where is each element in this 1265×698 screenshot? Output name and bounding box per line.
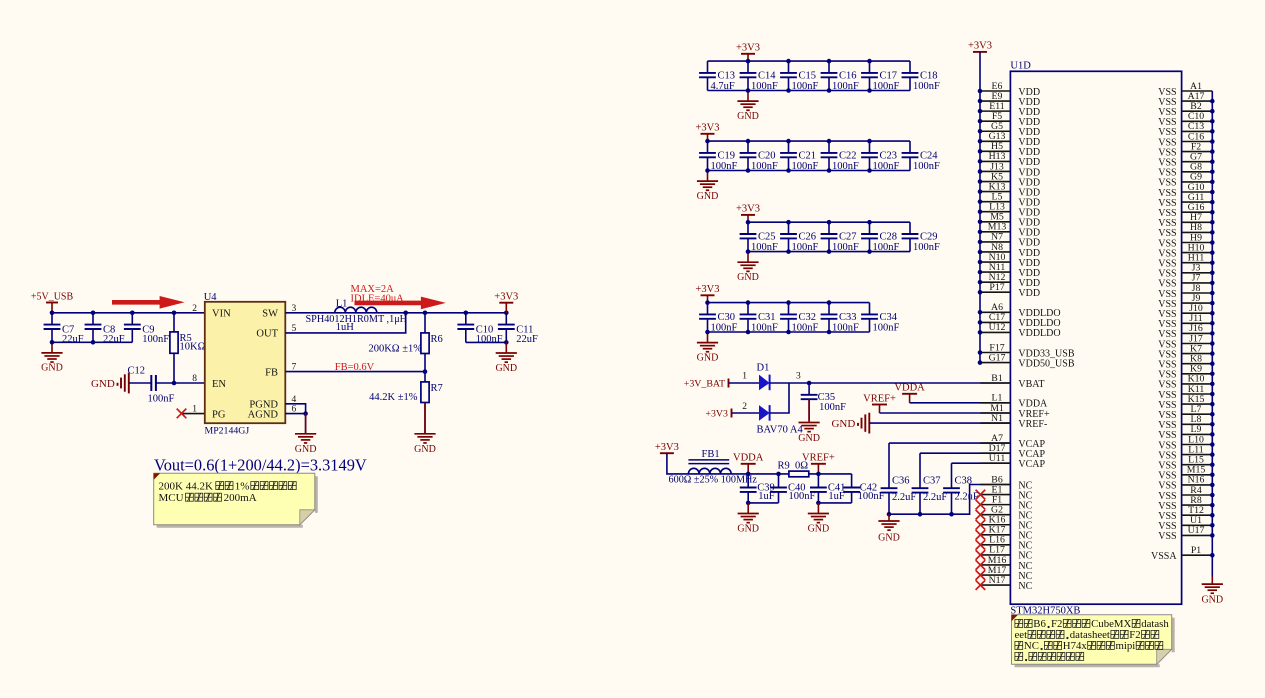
svg-text:Vout=0.6(1+200/44.2)=3.3149V: Vout=0.6(1+200/44.2)=3.3149V: [154, 455, 367, 474]
svg-text:VDDLDO: VDDLDO: [1018, 328, 1060, 339]
pin NC (K17): [980, 525, 1032, 542]
wire ground rail for C25-C29: [748, 251, 910, 253]
svg-text:SPH4012H1R0MT ,1μH: SPH4012H1R0MT ,1μH: [306, 314, 408, 325]
junction VDD bus N12: [978, 280, 983, 285]
junction VDD bus N11: [978, 270, 983, 275]
capacitor C13: [699, 61, 735, 92]
pin VDD (H5): [980, 141, 1040, 158]
pin VSS (L15): [1158, 455, 1212, 472]
junction: [807, 381, 812, 386]
junction VDDLDO bus A6: [978, 310, 983, 315]
junction VDD bus P17: [978, 290, 983, 295]
junction VDDLDO bus U12: [978, 330, 983, 335]
wire R6 top lead: [424, 313, 426, 333]
pin VCAP (A7): [980, 433, 1045, 450]
junction VSS bus B2: [1210, 109, 1215, 114]
svg-text:D1: D1: [757, 363, 770, 374]
pin VDD (G5): [980, 121, 1040, 138]
pin VSS (C13): [1158, 121, 1212, 138]
junction: [746, 220, 751, 225]
svg-text:1%: 1%: [235, 481, 250, 493]
junction VSS bus J9: [1210, 301, 1215, 306]
junction: [867, 88, 872, 93]
pin NC (L16): [980, 535, 1032, 552]
junction VSS bus J7: [1210, 281, 1215, 286]
svg-text:GND: GND: [737, 272, 759, 283]
junction: [786, 168, 791, 173]
wire D1 cathode join: [770, 383, 789, 413]
svg-text:C25: C25: [758, 232, 776, 243]
svg-text:600Ω ±25% 100MHz: 600Ω ±25% 100MHz: [669, 474, 758, 485]
svg-text:C22: C22: [839, 150, 857, 161]
svg-text:C18: C18: [920, 70, 938, 81]
capacitor C20: [740, 141, 778, 172]
svg-text:VBAT: VBAT: [1018, 379, 1044, 390]
U4 pin number 6: [292, 405, 297, 415]
junction: [918, 512, 923, 517]
junction VSS bus L8: [1210, 422, 1215, 427]
power port +3V3: [736, 43, 760, 62]
junction: [827, 249, 832, 254]
junction VSS bus K11: [1210, 392, 1215, 397]
capacitor C14: [740, 61, 778, 92]
ground (bar style): [91, 373, 129, 394]
svg-text:L1: L1: [336, 298, 348, 309]
svg-text:AGND: AGND: [248, 409, 279, 420]
capacitor C22: [821, 141, 859, 172]
power port +3V3: [695, 284, 719, 303]
pin VSS (U17): [1158, 525, 1212, 542]
power port +3V3: [736, 204, 760, 223]
diode D1 (BAV70 dual): [757, 363, 804, 436]
svg-text:MP2144GJ: MP2144GJ: [205, 426, 250, 437]
junction VDDLDO bus C17: [978, 320, 983, 325]
junction VDD bus F5: [978, 119, 983, 124]
no-connect X at pin N17: [976, 580, 986, 590]
label IDLE=40uA: [351, 293, 405, 304]
U4 pin number 8: [192, 374, 197, 384]
junction: [827, 300, 832, 305]
wire R6-R7 FB node: [424, 354, 426, 382]
junction: [705, 330, 710, 335]
capacitor C38: [943, 463, 979, 514]
junction VSS bus H8: [1210, 230, 1215, 235]
ground: [737, 252, 759, 283]
svg-text:100nF: 100nF: [751, 242, 778, 253]
pin VDD (F5): [980, 111, 1040, 128]
pin VDD (M5): [980, 212, 1040, 229]
note2 text line3: [1015, 640, 1163, 652]
pin VSS (J16): [1158, 323, 1212, 340]
junction: [504, 311, 509, 316]
pin VSS (H10): [1158, 242, 1212, 259]
pin VDD (J13): [980, 161, 1040, 178]
svg-text:VDD: VDD: [1018, 288, 1040, 299]
capacitor C37: [912, 453, 948, 514]
capacitor C35: [801, 383, 846, 421]
svg-text:GND: GND: [414, 444, 436, 455]
note box (pin B6/F2 remark): [1012, 615, 1175, 668]
junction: [303, 411, 308, 416]
resistor R5: [170, 332, 192, 353]
pin VDD (N7): [980, 232, 1040, 249]
pin VSS (G16): [1158, 202, 1212, 219]
pin VSS (L11): [1158, 444, 1212, 461]
junction: [827, 220, 832, 225]
svg-text:U4: U4: [204, 292, 218, 303]
pin VSS (M15): [1158, 465, 1212, 482]
svg-text:GND: GND: [878, 533, 900, 544]
U4 pin number 2: [192, 304, 197, 314]
svg-text:H74x: H74x: [1063, 640, 1088, 652]
junction: [464, 311, 469, 316]
svg-text:100nF: 100nF: [858, 491, 885, 502]
junction: [827, 139, 832, 144]
wire +3V3 rail for C19-C24: [708, 140, 911, 142]
svg-text:100nF: 100nF: [832, 161, 859, 172]
svg-text:C28: C28: [880, 232, 898, 243]
junction VDD bus E9: [978, 99, 983, 104]
svg-text:+3V_BAT: +3V_BAT: [684, 378, 725, 389]
pin VSS (R4): [1158, 485, 1212, 502]
svg-text:VREF-: VREF-: [1018, 419, 1047, 430]
pin VSS (J9): [1158, 293, 1212, 310]
capacitor C36: [881, 443, 917, 514]
svg-text:100nF: 100nF: [819, 402, 846, 413]
no-connect X at pin F1: [976, 500, 986, 510]
junction VSS bus J8: [1210, 291, 1215, 296]
svg-text:44.2K ±1%: 44.2K ±1%: [369, 392, 418, 403]
svg-text:C14: C14: [758, 70, 776, 81]
svg-text:GND: GND: [41, 363, 63, 374]
svg-text:22uF: 22uF: [516, 334, 538, 345]
U4 pin number 7: [292, 363, 297, 373]
junction: [867, 249, 872, 254]
pin VSS (J7): [1158, 273, 1212, 290]
pin NC (M17): [980, 565, 1032, 582]
pin VSS (A1): [1158, 81, 1212, 98]
wire VCAP caps to B6: [889, 485, 1010, 515]
svg-text:B6: B6: [1033, 618, 1046, 630]
svg-text:C13: C13: [718, 70, 736, 81]
svg-text:100nF: 100nF: [792, 242, 819, 253]
svg-text:GND: GND: [697, 191, 719, 202]
resistor R9: [778, 460, 809, 477]
ground: [1201, 577, 1223, 606]
wire +3V3 rail for C13-C18: [708, 60, 911, 62]
pin VDD (H13): [980, 151, 1040, 168]
svg-text:100nF: 100nF: [873, 161, 900, 172]
pin VDD (N8): [980, 242, 1040, 259]
junction: [776, 472, 781, 477]
svg-text:100nF: 100nF: [913, 81, 940, 92]
svg-text:GND: GND: [1201, 594, 1223, 605]
svg-text:C34: C34: [880, 312, 898, 323]
power port VDDA: [894, 383, 925, 403]
junction VDD bus M5: [978, 219, 983, 224]
junction VDD bus G13: [978, 139, 983, 144]
svg-text:NC: NC: [1024, 640, 1039, 652]
junction: [746, 88, 751, 93]
note text line2: [159, 492, 257, 504]
wire VREF+ to pin M1: [880, 412, 1011, 414]
svg-text:C20: C20: [758, 150, 776, 161]
svg-text:P17: P17: [989, 282, 1004, 293]
svg-text:100nF: 100nF: [832, 242, 859, 253]
pin VSS (J3): [1158, 263, 1212, 280]
pin VCAP (U11): [980, 453, 1045, 470]
svg-text:C19: C19: [718, 150, 736, 161]
D1 pin number 2: [742, 402, 747, 412]
junction VSS bus L9: [1210, 432, 1215, 437]
junction: [867, 220, 872, 225]
junction VDD bus N8: [978, 250, 983, 255]
ground: [737, 503, 759, 534]
power port +3V3: [695, 123, 719, 142]
junction VDD bus G5: [978, 129, 983, 134]
pin VSS (K8): [1158, 354, 1212, 371]
svg-text:200mA: 200mA: [224, 492, 257, 504]
pin VSS (J17): [1158, 333, 1212, 350]
no-connect X at pin K16: [976, 520, 986, 530]
svg-text:C24: C24: [920, 150, 938, 161]
wire VSS bus: [1211, 91, 1213, 577]
svg-text:C15: C15: [799, 70, 817, 81]
svg-text:C33: C33: [839, 312, 857, 323]
wire FB to divider: [285, 371, 425, 373]
svg-text:1uF: 1uF: [828, 491, 845, 502]
svg-text:VSSA: VSSA: [1151, 551, 1177, 562]
svg-text:EN: EN: [212, 379, 226, 390]
pin VDD (N12): [980, 272, 1040, 289]
svg-text:100nF: 100nF: [832, 81, 859, 92]
junction VSS bus K9: [1210, 372, 1215, 377]
note2 text line4: [1015, 652, 1084, 661]
svg-text:200K 44.2K: 200K 44.2K: [159, 481, 213, 493]
pin VREF- (N1): [980, 413, 1047, 430]
svg-text:VREF+: VREF+: [802, 453, 835, 464]
junction VSS bus H7: [1210, 220, 1215, 225]
svg-text:VCAP: VCAP: [1018, 459, 1045, 470]
junction VSS bus M15: [1210, 473, 1215, 478]
pin VSS (L8): [1158, 414, 1212, 431]
svg-text:MCU: MCU: [159, 492, 184, 504]
svg-text:VREF+: VREF+: [863, 393, 896, 404]
wire R5 bottom lead: [173, 353, 175, 383]
junction VSS bus G16: [1210, 210, 1215, 215]
svg-text:4.7uF: 4.7uF: [711, 81, 735, 92]
wire +3V_BAT to D1 pin1: [729, 382, 760, 384]
ground: [697, 171, 719, 202]
pin VDDA (L1): [980, 393, 1048, 410]
junction VDD bus H13: [978, 159, 983, 164]
note box (resistor tolerance): [154, 473, 318, 528]
power port +3V3: [705, 408, 731, 419]
junction: [867, 59, 872, 64]
resistor R6: [421, 333, 443, 354]
D1 pin number 3: [796, 371, 801, 381]
svg-text:C16: C16: [839, 70, 857, 81]
pin VDD50_USB (G17): [980, 352, 1075, 369]
svg-text:100nF: 100nF: [913, 242, 940, 253]
svg-text:100nF: 100nF: [711, 161, 738, 172]
label MAX=2A: [351, 284, 395, 295]
svg-text:N17: N17: [989, 575, 1006, 586]
pin VDD (N10): [980, 252, 1040, 269]
capacitor C29: [902, 222, 940, 253]
wire PGND to AGND: [285, 404, 305, 414]
pin VSS (J8): [1158, 283, 1212, 300]
no-connect X at pin L17: [976, 550, 986, 560]
junction VDD33_USB bus: [978, 350, 983, 355]
svg-text:+5V_USB: +5V_USB: [31, 291, 74, 302]
capacitor C39: [740, 474, 775, 503]
U4 pin number 3: [292, 304, 297, 314]
junction: [786, 220, 791, 225]
junction: [827, 88, 832, 93]
svg-text:2: 2: [192, 304, 197, 314]
svg-text:3: 3: [796, 371, 801, 381]
wire R9 to C42: [809, 473, 852, 475]
wire PG pin stub: [183, 413, 205, 415]
svg-text:+3V3: +3V3: [695, 123, 719, 134]
svg-text:100nF: 100nF: [711, 323, 738, 334]
junction VDD bus J13: [978, 169, 983, 174]
svg-text:C29: C29: [920, 232, 938, 243]
wire +3V3 to D1 pin2: [732, 412, 760, 414]
junction: [827, 168, 832, 173]
svg-text:C27: C27: [839, 232, 857, 243]
junction VSS bus C13: [1210, 129, 1215, 134]
svg-text:OUT: OUT: [256, 329, 278, 340]
power port +3V3: [968, 41, 992, 52]
junction VSS bus K8: [1210, 361, 1215, 366]
svg-text:200KΩ ±1%: 200KΩ ±1%: [368, 343, 422, 354]
svg-text:GND: GND: [737, 523, 759, 534]
junction VSS bus P1: [1210, 553, 1215, 558]
svg-text:VDDA: VDDA: [733, 453, 764, 464]
svg-text:R6: R6: [431, 334, 443, 345]
pin NC (G2): [980, 504, 1032, 521]
capacitor C21: [780, 141, 818, 172]
pin VREF+ (M1): [980, 403, 1050, 420]
junction: [867, 168, 872, 173]
junction VSS bus H9: [1210, 240, 1215, 245]
junction: [50, 311, 55, 316]
pin VDD (N11): [980, 262, 1040, 279]
junction: [746, 330, 751, 335]
svg-text:BAV70 A4: BAV70 A4: [757, 425, 804, 436]
svg-text:C37: C37: [923, 475, 941, 486]
junction: [949, 512, 954, 517]
svg-text:B1: B1: [991, 373, 1003, 384]
svg-text:GND: GND: [495, 363, 517, 374]
capacitor C10: [457, 313, 502, 345]
junction: [172, 311, 177, 316]
junction VSS bus K7: [1210, 351, 1215, 356]
pin VSS (L9): [1158, 424, 1212, 441]
capacitor C24: [902, 141, 940, 172]
pin VSS (T12): [1158, 505, 1212, 522]
svg-text:+3V3: +3V3: [494, 292, 518, 303]
svg-text:SW: SW: [262, 309, 278, 320]
wire OUT to SW node: [285, 313, 405, 333]
no-connect X at pin K17: [976, 530, 986, 540]
junction VDD bus L13: [978, 209, 983, 214]
pin VDDLDO (U12): [980, 322, 1061, 339]
value 44.2K ±1% of R7: [369, 392, 418, 403]
ground: [798, 399, 820, 444]
junction VDD bus N7: [978, 240, 983, 245]
junction VDD bus N10: [978, 260, 983, 265]
junction: [746, 249, 751, 254]
svg-text:+3V3: +3V3: [736, 204, 760, 215]
wire ground rail for C30-C34: [708, 331, 870, 333]
wire +3V3 rail for C25-C29: [748, 221, 910, 223]
junction: [816, 501, 821, 506]
junction: [746, 300, 751, 305]
U4 pin number 1: [192, 405, 197, 415]
pin VCAP (D17): [980, 443, 1045, 460]
svg-text:mipi: mipi: [1115, 640, 1135, 652]
junction VSS bus K15: [1210, 402, 1215, 407]
pin VSS (N16): [1158, 475, 1212, 492]
pin VSS (B2): [1158, 101, 1212, 118]
svg-text:P1: P1: [1191, 545, 1201, 556]
svg-text:100nF: 100nF: [792, 161, 819, 172]
D1 pin number 1: [742, 371, 747, 381]
svg-text:22uF: 22uF: [103, 334, 125, 345]
power port +5V_USB: [31, 291, 74, 313]
pin VDD (L13): [980, 202, 1040, 219]
svg-text:+3V3: +3V3: [736, 43, 760, 54]
junction VSS bus U17: [1210, 533, 1215, 538]
junction: [423, 311, 428, 316]
svg-text:C21: C21: [799, 150, 817, 161]
svg-text:100nF: 100nF: [148, 394, 175, 405]
pin VDD (G13): [980, 131, 1040, 148]
junction VSS bus J16: [1210, 331, 1215, 336]
pin VSS (C10): [1158, 111, 1212, 128]
pin VSS (H8): [1158, 222, 1212, 239]
pin NC (B6): [980, 474, 1032, 491]
svg-text:22uF: 22uF: [62, 334, 84, 345]
junction: [91, 340, 96, 345]
svg-text:+3V3: +3V3: [695, 284, 719, 295]
svg-text:100nF: 100nF: [476, 334, 503, 345]
pin NC (M16): [980, 555, 1032, 572]
junction VDD bus M13: [978, 230, 983, 235]
svg-text:100nF: 100nF: [751, 161, 778, 172]
svg-text:NC: NC: [1018, 581, 1032, 592]
junction: [887, 512, 892, 517]
wire +3V3 rail for C30-C34: [708, 302, 870, 304]
junction: [705, 300, 710, 305]
wire ground rail for C13-C18: [708, 90, 911, 92]
pin VDD (M13): [980, 222, 1040, 239]
capacitor C11: [498, 313, 538, 345]
junction: [705, 139, 710, 144]
junction VDD bus E6: [978, 89, 983, 94]
capacitor C34: [861, 303, 899, 334]
junction VSS bus L11: [1210, 452, 1215, 457]
junction: [746, 139, 751, 144]
junction: [423, 369, 428, 374]
svg-text:VDD50_USB: VDD50_USB: [1018, 358, 1074, 369]
MCU U1D body: [1010, 60, 1181, 616]
pin NC (K16): [980, 515, 1032, 532]
wire +5V_USB rail: [52, 312, 205, 314]
